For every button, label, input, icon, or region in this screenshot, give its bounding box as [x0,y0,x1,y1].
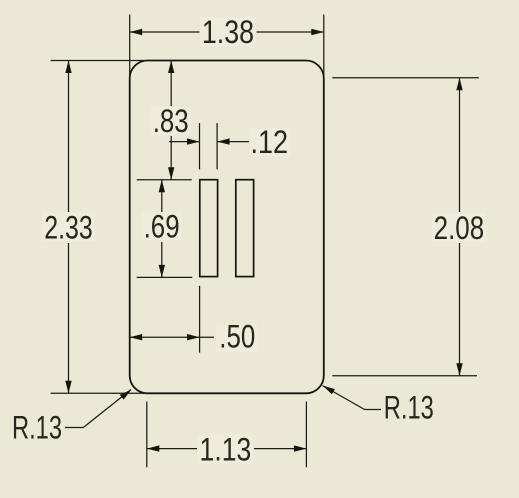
svg-text:1.13: 1.13 [200,431,252,467]
dimension .12 extension line right [216,123,218,169]
dimension .69 arrow top [159,180,165,193]
dimension .12 extension line left [199,123,201,169]
dimension 2.08 dimension line [459,78,461,212]
dimension .50 extension line [199,286,201,353]
dimension 2.33 arrow top [65,61,71,74]
dimension 1.38 extension line right [323,15,325,81]
dimension 2.33 text [42,210,95,246]
dimension .69 text [142,209,182,245]
dimension .69 dimension line [161,180,163,212]
svg-text:2.33: 2.33 [44,210,93,246]
leader R.13 left arrow [120,390,132,400]
dimension .12 dimension line left tail [169,141,199,143]
dimension 1.13 extension line right [305,402,307,468]
svg-text:1.38: 1.38 [202,14,254,50]
dimension .83 text [151,103,191,139]
plate outline (rounded rectangle) [130,61,324,394]
dimension 1.38 dimension line [130,31,200,33]
dimension 2.08 extension line top [332,77,479,79]
leader R.13 right line [323,386,382,410]
leader R.13 right arrow [323,386,335,395]
dimension 2.33 extension line bottom [51,392,148,394]
dimension .69 extension line bottom [137,276,193,278]
svg-text:.50: .50 [219,319,255,355]
svg-text:.12: .12 [251,124,289,160]
dimension .50 arrow left [130,334,143,340]
dimension .83 arrow bottom [168,167,174,180]
dimension 1.38 arrow left [130,29,143,35]
dimension 1.13 dimension line [147,448,197,450]
dimension .69 arrow bottom [159,265,165,278]
dimension .50 arrow right [187,334,200,340]
slot 1 (left slot) [200,180,218,277]
dimension .50 text [216,319,257,355]
slot 2 (right slot) [236,180,254,277]
dimension .12 text [250,124,291,160]
dimension 1.38 text [200,14,256,50]
dimension .50 dimension line [130,336,214,338]
dimension 2.08 arrow top [456,78,462,91]
leader R.13 left line [65,390,131,428]
dimension 1.38 extension line left [129,15,131,81]
svg-text:2.08: 2.08 [434,210,485,246]
dimension 2.33 extension line top [51,60,148,62]
svg-text:.69: .69 [144,209,180,245]
dimension 2.33 arrow bottom [65,381,71,394]
dimension .69 extension line top [137,179,192,181]
svg-text:R.13: R.13 [12,410,62,446]
dimension 1.13 text [198,431,253,467]
dimension .12 arrow right [217,138,230,144]
dimension .83 dimension line [170,61,172,107]
dimension 2.08 extension line bottom [332,375,477,377]
svg-text:R.13: R.13 [384,389,434,425]
dimension 1.38 arrow right [311,29,324,35]
dimension 2.08 text [432,210,486,246]
dimension 1.13 arrow right [294,445,307,451]
dimension .83 arrow top [168,61,174,74]
dimension 2.08 arrow bottom [456,363,462,376]
svg-text:.83: .83 [153,103,189,139]
dimension 1.13 extension line left [146,402,148,468]
dimension .12 dimension line right tail [217,141,249,143]
dimension 1.13 arrow left [147,445,160,451]
dimension 2.33 dimension line [68,61,70,213]
dimension .12 arrow left [187,138,200,144]
